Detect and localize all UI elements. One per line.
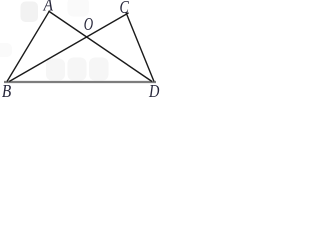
- wire segment CB: [9, 13, 128, 82]
- svg-text:O: O: [84, 15, 93, 35]
- svg-text:D: D: [148, 80, 159, 97]
- svg-text:B: B: [2, 81, 11, 97]
- wire segment AB: [7, 11, 50, 82]
- wire segment AD: [49, 11, 153, 82]
- svg-text:C: C: [120, 0, 130, 17]
- wire segment BD (gray base line): [4, 81, 156, 83]
- wire segment CD: [126, 12, 154, 82]
- watermark ghost row 2: [68, 58, 87, 81]
- svg-text:A: A: [43, 0, 54, 15]
- watermark ghost top-left: [21, 2, 39, 23]
- background: [0, 0, 161, 97]
- watermark ghost row 3: [89, 58, 109, 81]
- watermark ghost top middle: [68, 0, 90, 17]
- watermark ghost left edge: [0, 43, 12, 57]
- watermark ghost row 1: [46, 59, 65, 81]
